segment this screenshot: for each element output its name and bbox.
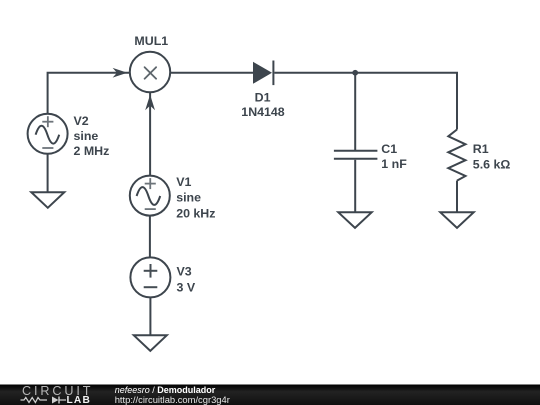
wire V3 to ground [149, 297, 151, 335]
value label 1 nF [381, 157, 407, 171]
wire diode cathode to node A [274, 72, 355, 74]
value label 1N4148 [241, 105, 285, 119]
V2 minus sign [42, 147, 53, 149]
value label sine (V1) [176, 190, 201, 204]
svg-text:V2: V2 [74, 114, 89, 128]
wire MUL1 output to diode anode [170, 72, 253, 74]
svg-text:C1: C1 [381, 142, 397, 156]
svg-text:LAB: LAB [67, 395, 92, 405]
value label 20 kHz [176, 207, 215, 221]
node A junction dot [352, 70, 358, 76]
label V3 [177, 264, 192, 278]
V3 minus sign [144, 286, 158, 288]
wire V2 top to MUL1 input [48, 73, 130, 114]
svg-text:20 kHz: 20 kHz [176, 207, 215, 221]
V3 plus sign [144, 264, 158, 278]
CircuitLab logo LAB text [67, 395, 92, 405]
svg-text:sine: sine [74, 129, 99, 143]
resistor R1 zigzag [448, 130, 465, 181]
wire V1 to V3 [149, 216, 151, 258]
wire R1 bottom lead [456, 181, 458, 213]
footer bar [0, 385, 540, 405]
svg-text:D1: D1 [255, 90, 271, 104]
wire node A to R1 top corner [355, 73, 457, 130]
arrowhead into MUL1 left pin [113, 68, 128, 78]
CircuitLab logo CIRCUIT text [22, 384, 93, 398]
MUL1 multiply symbol [145, 67, 157, 79]
ground under V2 [31, 192, 64, 208]
label V1 [176, 175, 191, 189]
svg-text:sine: sine [176, 190, 201, 204]
wire C1 bottom to ground [354, 160, 356, 213]
ground under V3 [134, 335, 167, 351]
voltage source V2 circle [28, 114, 68, 154]
arrowhead into MUL1 bottom pin [145, 95, 155, 111]
CircuitLab logo diode symbol [52, 397, 66, 404]
wire V2 bottom to ground [47, 154, 49, 192]
CircuitLab logo resistor zigzag [21, 398, 48, 403]
label V2 [74, 114, 89, 128]
V1 plus sign [145, 178, 156, 189]
footer author / title line [115, 385, 216, 395]
wire node A down to C1 [354, 73, 356, 150]
ground under R1 [440, 212, 473, 228]
wire V1 top to MUL1 bottom [149, 92, 151, 176]
svg-text:R1: R1 [473, 142, 489, 156]
V2 plus sign [42, 116, 53, 127]
svg-text:MUL1: MUL1 [134, 34, 168, 48]
voltage source V1 circle [130, 176, 170, 216]
V1 minus sign [145, 208, 156, 210]
voltage source V3 circle [130, 257, 170, 297]
value label 2 MHz [74, 144, 110, 158]
label D1 [255, 90, 271, 104]
label MUL1 [134, 34, 168, 48]
svg-text:http://circuitlab.com/cgr3g4r: http://circuitlab.com/cgr3g4r [115, 394, 230, 405]
label R1 [473, 142, 489, 156]
label C1 [381, 142, 397, 156]
diode D1 [253, 61, 273, 86]
multiplier MUL1 circle [130, 52, 170, 92]
ground under C1 [338, 212, 371, 228]
capacitor C1 [334, 151, 378, 159]
svg-text:5.6 kΩ: 5.6 kΩ [473, 157, 511, 171]
V2 sine symbol [36, 126, 60, 144]
svg-text:3 V: 3 V [177, 281, 196, 295]
svg-text:1N4148: 1N4148 [241, 105, 285, 119]
value label 5.6 kOhm [473, 157, 511, 171]
svg-text:2 MHz: 2 MHz [74, 144, 110, 158]
footer url line [115, 394, 230, 405]
svg-text:V3: V3 [177, 264, 192, 278]
value label sine (V2) [74, 129, 99, 143]
value label 3 V [177, 281, 196, 295]
svg-text:1 nF: 1 nF [381, 157, 407, 171]
svg-text:V1: V1 [176, 175, 191, 189]
V1 sine symbol [137, 187, 161, 205]
